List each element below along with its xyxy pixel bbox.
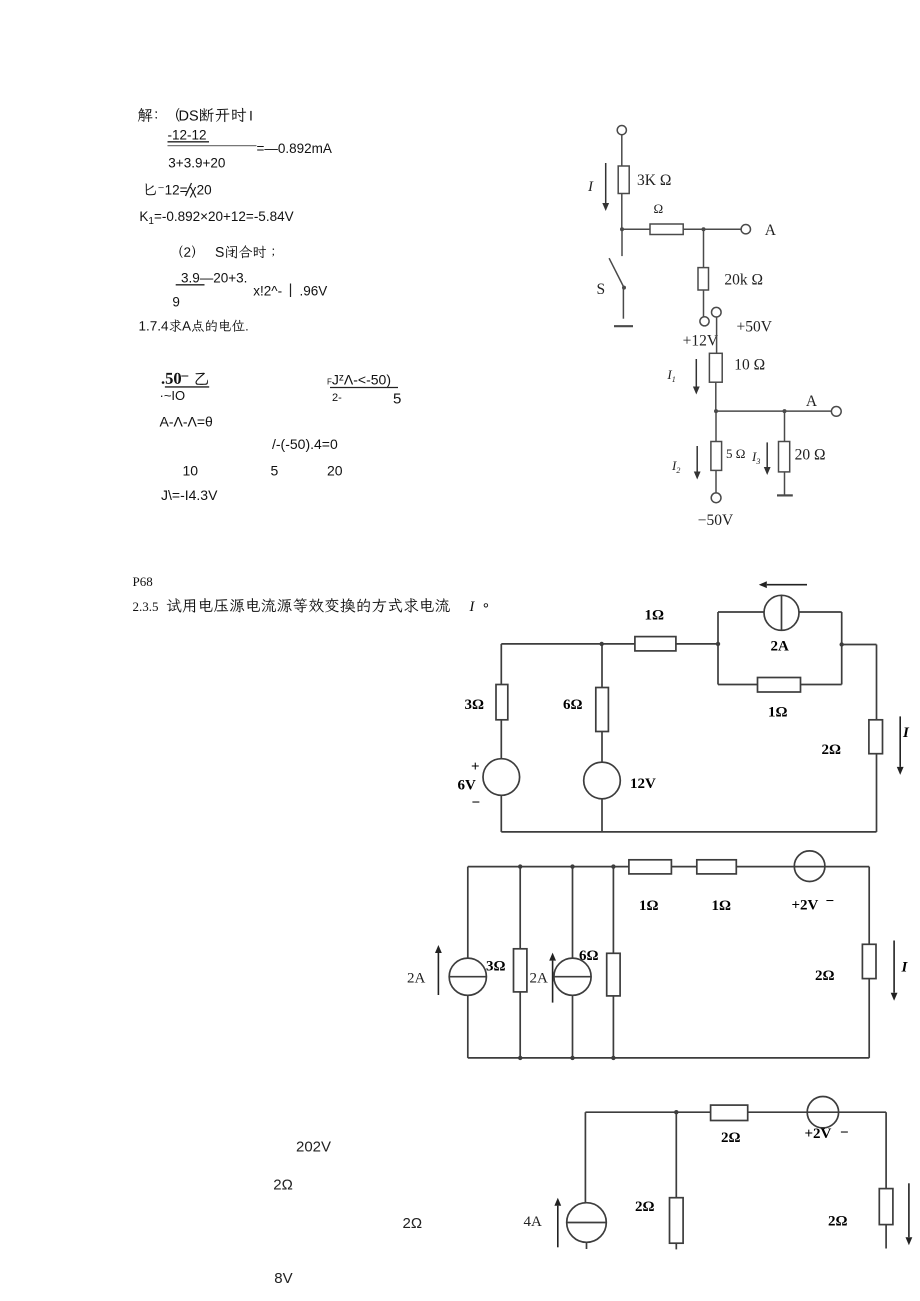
svg-text:2A: 2A (771, 638, 790, 654)
svg-text:+: + (471, 759, 480, 775)
svg-text:2Ω: 2Ω (828, 1214, 848, 1230)
svg-text:20k Ω: 20k Ω (724, 272, 763, 289)
wire (675, 1112, 677, 1198)
wire (736, 866, 869, 868)
resistor 6ohm c2 (607, 953, 620, 996)
fraction bar (168, 145, 257, 147)
arrow 2A (767, 584, 807, 586)
line bi slash (186, 183, 192, 196)
svg-text:x!2^-: x!2^- (253, 283, 282, 298)
node (674, 1110, 678, 1114)
wire (868, 867, 870, 945)
wire top c2 (468, 866, 629, 868)
wire (885, 1225, 887, 1249)
svg-text:4A: 4A (524, 1214, 543, 1230)
arrow 2A c2a (437, 953, 439, 995)
current I2 arrow (696, 446, 698, 472)
wire (671, 866, 696, 868)
source 4A circle (567, 1203, 607, 1243)
wire (601, 644, 603, 688)
svg-text:A: A (806, 393, 818, 410)
wire bottom (501, 831, 876, 833)
resistor 1ohm c2b (697, 860, 737, 874)
wire (703, 290, 705, 317)
text line jie DS (180, 110, 198, 120)
wire bottom c2 (468, 1057, 869, 1059)
arrow I c2 (893, 941, 895, 993)
wire loop left (717, 612, 719, 685)
svg-text:+2V: +2V (792, 898, 819, 914)
header 2.3.5 cjk (167, 598, 450, 613)
source 6V (483, 759, 520, 796)
svg-text:·~IO: ·~IO (160, 388, 186, 403)
svg-text:I: I (901, 960, 909, 976)
source 2A bar (781, 595, 783, 630)
svg-text:A-Λ-Λ=θ: A-Λ-Λ=θ (160, 414, 214, 430)
node (570, 864, 574, 868)
frac .50-yi (162, 373, 181, 384)
wire top c3 (585, 1111, 710, 1113)
svg-text:202V: 202V (296, 1138, 331, 1155)
current I3 arrow (766, 442, 768, 467)
svg-text:12V: 12V (630, 776, 656, 792)
wire (601, 799, 603, 832)
wire (572, 995, 574, 1058)
wire (716, 317, 718, 353)
wire (519, 992, 521, 1058)
wire loop top left (718, 611, 764, 613)
resistor 1ohm a (635, 637, 676, 651)
svg-text:3+3.9+20: 3+3.9+20 (168, 155, 225, 170)
wire switch (621, 229, 623, 256)
svg-text:5 Ω: 5 Ω (726, 446, 745, 461)
svg-text:=—0.892mA: =—0.892mA (257, 141, 332, 156)
header 2.3.5 stop (484, 603, 488, 607)
resistor horizontal (650, 224, 683, 235)
wire (784, 472, 786, 496)
resistor 3K (618, 166, 629, 194)
source 2V c3 (807, 1097, 838, 1128)
line (2) (179, 245, 195, 258)
wire (842, 644, 877, 646)
svg-text:−: − (826, 894, 835, 910)
svg-text:2-: 2- (332, 392, 342, 404)
terminal -50V (711, 493, 721, 503)
svg-text:FJzΛ-<-50): FJzΛ-<-50) (327, 372, 391, 388)
wire (586, 1242, 588, 1249)
node (783, 409, 787, 413)
wire (876, 645, 878, 720)
wire (500, 795, 502, 832)
node (518, 864, 522, 868)
wire (675, 1243, 677, 1249)
vbar (290, 284, 292, 298)
svg-text:2Ω: 2Ω (403, 1215, 423, 1232)
source 12V (584, 762, 621, 799)
wire (500, 644, 502, 685)
resistor 6ohm (596, 688, 609, 732)
svg-text:6V: 6V (458, 777, 477, 793)
svg-text:-12-12: -12-12 (168, 127, 207, 142)
wire (467, 995, 469, 1058)
svg-text:6Ω: 6Ω (563, 697, 583, 713)
svg-text:2A: 2A (530, 971, 549, 987)
current I1 arrow (695, 359, 697, 387)
resistor 20 (779, 442, 790, 472)
svg-text:P68: P68 (133, 574, 153, 589)
svg-text:2Ω: 2Ω (635, 1199, 655, 1215)
svg-text:χ20: χ20 (190, 182, 212, 197)
resistor 20k (698, 268, 709, 290)
wire (703, 229, 705, 267)
svg-text:I: I (587, 179, 594, 195)
svg-text:8V: 8V (274, 1270, 292, 1287)
terminal +12V (700, 317, 709, 326)
svg-text:/-(-50).4=0: /-(-50).4=0 (272, 436, 338, 452)
node (600, 642, 604, 646)
ground switch (614, 325, 633, 327)
wire (876, 754, 878, 832)
source 2V c2 (794, 851, 825, 882)
arrow 4A (557, 1206, 559, 1248)
node (611, 1056, 615, 1060)
source 2A c2b bar (554, 976, 591, 978)
svg-text:Ω: Ω (654, 201, 664, 216)
text line jie colon (155, 111, 157, 118)
node (570, 1056, 574, 1060)
svg-text:1Ω: 1Ω (768, 705, 788, 721)
node (714, 409, 718, 413)
frac minus (181, 376, 188, 377)
arrow I c3 (908, 1183, 910, 1237)
svg-text:I: I (902, 725, 910, 741)
node junction (702, 227, 706, 231)
svg-text:.96V: .96V (300, 283, 328, 298)
svg-text:+50V: +50V (737, 319, 773, 336)
wire (784, 411, 786, 441)
resistor 2ohm c3b (670, 1198, 684, 1244)
svg-text:2Ω: 2Ω (822, 742, 842, 758)
wire (621, 135, 623, 166)
text line jie I (250, 111, 251, 121)
svg-text:9: 9 (172, 295, 180, 310)
switch blade (609, 258, 624, 287)
source 2A c2b circle (554, 958, 591, 995)
svg-text:1Ω: 1Ω (639, 898, 659, 914)
svg-text:+12V: +12V (683, 333, 719, 350)
svg-text:2.3.5: 2.3.5 (133, 599, 159, 614)
wire (500, 720, 502, 759)
svg-text:5: 5 (393, 391, 401, 408)
wire (885, 1112, 887, 1188)
source 4A bar (567, 1222, 607, 1224)
arrow 2A c2b (552, 961, 554, 1003)
wire top (501, 643, 635, 645)
source 2A c2a circle (449, 958, 486, 995)
underline 50 (165, 386, 209, 388)
line 1.7.4 (140, 319, 248, 332)
terminal A2 (831, 407, 841, 417)
terminal top (617, 126, 626, 135)
svg-text:3.9—20+3.: 3.9—20+3. (181, 270, 247, 285)
svg-text:1Ω: 1Ω (712, 898, 732, 914)
svg-text:10: 10 (183, 463, 199, 479)
svg-text:⁻12=: ⁻12= (158, 182, 188, 197)
node junction (620, 227, 624, 231)
svg-text:10 Ω: 10 Ω (734, 357, 765, 374)
wire (748, 1111, 886, 1113)
svg-text:A: A (765, 222, 777, 239)
resistor 3ohm (496, 685, 508, 720)
svg-text:−: − (472, 795, 481, 811)
svg-text:3K Ω: 3K Ω (637, 172, 671, 189)
resistor 2ohm (869, 720, 883, 754)
svg-text:2Ω: 2Ω (273, 1177, 293, 1194)
svg-text:S: S (597, 281, 606, 298)
resistor 10 (709, 353, 722, 382)
line bi (146, 184, 156, 196)
header 2.3.5 I (469, 602, 475, 612)
svg-text:I2: I2 (671, 458, 680, 475)
svg-text:1Ω: 1Ω (645, 608, 665, 624)
switch node (622, 286, 626, 290)
wire (601, 732, 603, 763)
source 2A circle (764, 595, 799, 630)
wire (584, 1112, 586, 1203)
text line jie paren (176, 108, 179, 122)
svg-text:I1: I1 (666, 367, 675, 384)
terminal A (741, 225, 750, 234)
wire (715, 411, 717, 441)
svg-text:5: 5 (271, 463, 279, 479)
underline 3.9 (176, 284, 205, 286)
svg-text:3Ω: 3Ω (486, 959, 506, 975)
wire (622, 228, 650, 230)
resistor 3ohm c2 (514, 949, 527, 992)
wire (612, 867, 614, 954)
node (840, 642, 844, 646)
resistor 2ohm c3c (879, 1189, 893, 1225)
svg-text:20 Ω: 20 Ω (795, 447, 826, 464)
svg-text:+2V: +2V (805, 1126, 832, 1142)
svg-text:20: 20 (327, 463, 343, 479)
resistor 1ohm b (758, 678, 801, 693)
frac yi (196, 373, 208, 385)
source 2A c2a bar (449, 976, 486, 978)
wire loop bottom left (718, 684, 758, 686)
wire (716, 410, 831, 412)
resistor 2ohm c3a (711, 1105, 748, 1120)
svg-text:2Ω: 2Ω (721, 1130, 741, 1146)
wire (519, 867, 521, 949)
ground (777, 494, 793, 496)
svg-text:−: − (840, 1125, 849, 1141)
wire loop top right (799, 611, 842, 613)
node (716, 642, 720, 646)
resistor 1ohm c2a (629, 860, 672, 874)
right frac underline (330, 387, 398, 389)
wire (612, 996, 614, 1058)
line S bihe (216, 245, 275, 258)
node (518, 1056, 522, 1060)
wire (622, 288, 624, 319)
text line jie duan (200, 108, 246, 122)
wire (572, 867, 574, 959)
node (611, 864, 615, 868)
svg-text:I3: I3 (751, 449, 760, 466)
svg-text:3Ω: 3Ω (465, 697, 485, 713)
wire loop right (841, 612, 843, 685)
svg-text:2A: 2A (407, 971, 426, 987)
svg-text:6Ω: 6Ω (579, 948, 599, 964)
svg-text:K1=-0.892×20+12=-5.84V: K1=-0.892×20+12=-5.84V (139, 209, 293, 227)
wire (715, 382, 717, 411)
wire loop bottom right (801, 684, 842, 686)
svg-text:−50V: −50V (698, 512, 734, 529)
resistor 5 (711, 442, 722, 471)
svg-text:2Ω: 2Ω (815, 968, 835, 984)
numerator underline (168, 141, 210, 143)
wire (676, 643, 718, 645)
wire (621, 194, 623, 230)
resistor 2ohm c2 (862, 944, 876, 978)
wire (715, 470, 717, 493)
text line jie (138, 108, 153, 122)
terminal +50V (712, 307, 722, 317)
current I arrow (605, 163, 607, 203)
wire (683, 228, 741, 230)
arrow I (899, 716, 901, 767)
wire (868, 979, 870, 1058)
svg-text:J\=-I4.3V: J\=-I4.3V (161, 487, 218, 503)
wire (467, 867, 469, 959)
